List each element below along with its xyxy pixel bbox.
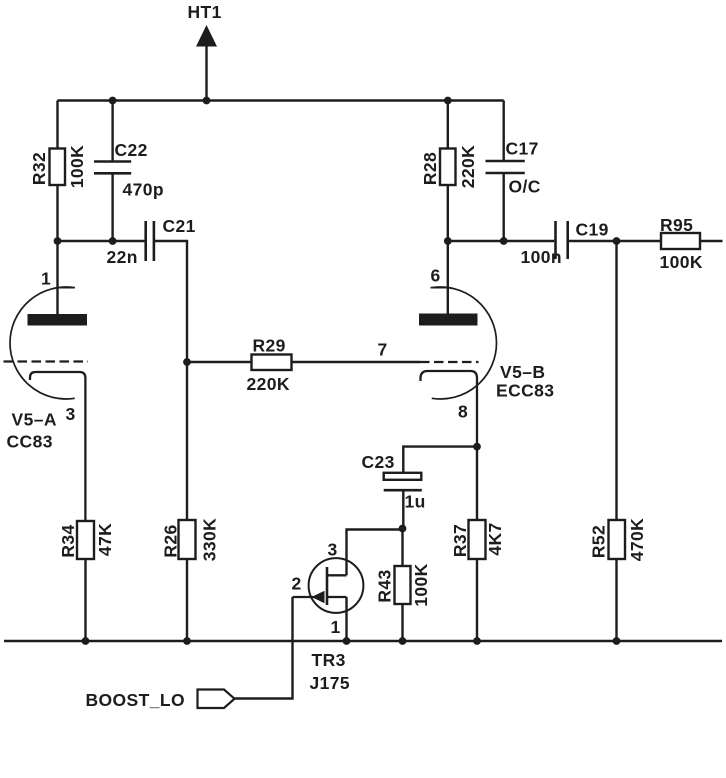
wire R32 top lead bbox=[56, 101, 58, 149]
wire R52 bottom lead bbox=[615, 559, 617, 641]
resistor R26 bbox=[179, 520, 196, 559]
svg-text:2: 2 bbox=[292, 574, 302, 594]
node bus / R34 bbox=[82, 637, 90, 645]
node HT bus / C22 bbox=[109, 97, 117, 105]
node V5-A anode / R32 bbox=[54, 237, 62, 245]
node bus / R52 bbox=[613, 637, 621, 645]
svg-text:3: 3 bbox=[66, 404, 76, 424]
svg-text:R28: R28 bbox=[420, 152, 440, 185]
power net HT1 bbox=[196, 25, 217, 101]
svg-text:R43: R43 bbox=[375, 569, 395, 602]
triode V5-B envelope bbox=[432, 287, 497, 399]
svg-text:R52: R52 bbox=[589, 525, 609, 558]
svg-text:R37: R37 bbox=[450, 524, 470, 557]
node V5-B cathode / C23 R37 bbox=[473, 443, 481, 451]
wire C17 top lead bbox=[503, 101, 505, 162]
resistor R29 bbox=[252, 355, 292, 371]
wire R37 bottom lead bbox=[476, 559, 478, 641]
wire cathode node to C23 bbox=[403, 447, 477, 473]
svg-text:470K: 470K bbox=[627, 518, 647, 561]
wire R29 to V5-B grid bbox=[292, 361, 421, 363]
svg-text:100K: 100K bbox=[411, 563, 431, 606]
wire R52 top lead bbox=[615, 241, 617, 520]
wire top HT bus bbox=[58, 99, 504, 101]
resistor R43 bbox=[395, 566, 411, 604]
svg-text:O/C: O/C bbox=[509, 177, 541, 197]
svg-text:1: 1 bbox=[331, 617, 341, 637]
node bus / R43 bbox=[399, 637, 407, 645]
wire R43 bottom lead bbox=[401, 604, 403, 641]
node V5-B anode / R28 bbox=[444, 237, 452, 245]
wire grid node to R29 bbox=[187, 361, 252, 363]
triode V5-A cathode bbox=[30, 372, 85, 521]
wire R43 top lead bbox=[401, 529, 403, 567]
transistor TR3 (JFET J175) bbox=[293, 558, 364, 613]
resistor R37 bbox=[469, 520, 486, 559]
svg-text:22n: 22n bbox=[107, 247, 138, 267]
wire R37 top lead bbox=[476, 447, 478, 520]
capacitor C21 bbox=[146, 221, 154, 261]
wire C23 bottom lead bbox=[402, 490, 404, 528]
triode V5-B plate bbox=[419, 314, 478, 326]
resistor R52 bbox=[609, 520, 626, 559]
wire R95 right lead bbox=[700, 240, 723, 242]
wire TR3 drain to C23 node bbox=[347, 530, 403, 576]
triode V5-A grid (dashed) bbox=[4, 360, 89, 362]
capacitor C22 bbox=[94, 162, 131, 174]
node bus / R26 bbox=[183, 637, 191, 645]
svg-text:220K: 220K bbox=[458, 145, 478, 188]
wire R32 bottom lead bbox=[56, 185, 58, 241]
svg-text:C19: C19 bbox=[576, 220, 609, 240]
resistor R32 bbox=[50, 149, 66, 186]
wire TR3 source to bus bbox=[345, 597, 347, 641]
svg-text:47K: 47K bbox=[95, 523, 115, 556]
triode V5-B grid (dashed) bbox=[420, 361, 479, 363]
svg-text:100K: 100K bbox=[67, 145, 87, 188]
svg-text:330K: 330K bbox=[200, 518, 220, 561]
svg-text:V5–B: V5–B bbox=[500, 362, 545, 382]
wire R26 bottom lead bbox=[186, 559, 188, 641]
svg-text:R95: R95 bbox=[660, 215, 693, 235]
svg-text:BOOST_LO: BOOST_LO bbox=[86, 690, 185, 710]
svg-text:3: 3 bbox=[328, 540, 338, 560]
svg-text:1: 1 bbox=[41, 269, 51, 289]
svg-text:R32: R32 bbox=[29, 152, 49, 185]
svg-text:ECC83: ECC83 bbox=[496, 381, 554, 401]
node V5-A anode / C22 bbox=[109, 237, 117, 245]
svg-text:J175: J175 bbox=[310, 673, 351, 693]
wire bottom ground bus bbox=[4, 640, 722, 643]
svg-text:100K: 100K bbox=[660, 252, 703, 272]
triode V5-A envelope bbox=[10, 287, 75, 399]
svg-text:6: 6 bbox=[431, 266, 441, 286]
triode V5-A plate bbox=[28, 314, 88, 326]
node V5-B anode / C17 bbox=[500, 237, 508, 245]
svg-text:HT1: HT1 bbox=[188, 2, 222, 22]
svg-text:C21: C21 bbox=[163, 216, 196, 236]
svg-text:C23: C23 bbox=[362, 452, 395, 472]
wire C21 to grid column bbox=[154, 241, 187, 520]
svg-text:100n: 100n bbox=[521, 247, 563, 267]
resistor R95 bbox=[661, 233, 700, 249]
wire C22 bottom lead bbox=[111, 173, 113, 241]
svg-text:1u: 1u bbox=[405, 492, 426, 512]
capacitor C19 bbox=[556, 221, 568, 259]
svg-text:C22: C22 bbox=[115, 140, 148, 160]
svg-text:R26: R26 bbox=[161, 524, 181, 557]
svg-text:7: 7 bbox=[378, 340, 388, 360]
capacitor C23 (top plate) bbox=[384, 473, 422, 480]
port BOOST_LO bbox=[198, 690, 235, 709]
wire R34 bottom lead bbox=[84, 559, 86, 641]
svg-text:470p: 470p bbox=[123, 180, 165, 200]
wire C19 to output node bbox=[568, 240, 661, 242]
resistor R28 bbox=[440, 149, 456, 186]
node HT bus / HT1 bbox=[203, 97, 211, 105]
svg-text:V5–A: V5–A bbox=[12, 410, 57, 430]
node V5-B grid / R26 bbox=[183, 358, 191, 366]
svg-text:220K: 220K bbox=[247, 374, 290, 394]
node HT bus / R28 bbox=[444, 97, 452, 105]
svg-text:CC83: CC83 bbox=[7, 432, 53, 452]
pin 1 tick (V5-A) bbox=[58, 287, 75, 289]
node bus / TR3 source bbox=[343, 637, 351, 645]
wire TR3 gate net bbox=[235, 597, 293, 699]
node bus / R37 bbox=[473, 637, 481, 645]
wire R28 bottom lead bbox=[447, 185, 449, 241]
svg-text:4K7: 4K7 bbox=[485, 522, 505, 555]
svg-text:R29: R29 bbox=[253, 336, 286, 356]
wire left anode rail bbox=[58, 240, 145, 242]
pin 6 tick (V5-B) bbox=[431, 287, 448, 289]
wire right anode rail bbox=[448, 240, 555, 242]
wire V5-B anode lead bbox=[447, 241, 449, 314]
capacitor C17 bbox=[486, 161, 525, 173]
wire C22 top lead bbox=[111, 101, 113, 162]
resistor R34 bbox=[77, 521, 94, 559]
svg-text:TR3: TR3 bbox=[312, 650, 346, 670]
capacitor C23 (bottom plate) bbox=[384, 489, 422, 492]
svg-text:R34: R34 bbox=[58, 524, 78, 557]
triode V5-B cathode bbox=[421, 371, 478, 447]
svg-text:C17: C17 bbox=[506, 139, 539, 159]
node output / R95 R52 bbox=[613, 237, 621, 245]
wire R28 top lead bbox=[447, 101, 449, 149]
node C23 / R43 / TR3 drain bbox=[399, 525, 407, 533]
wire C17 bottom lead bbox=[503, 173, 505, 241]
svg-text:8: 8 bbox=[458, 402, 468, 422]
wire V5-A anode lead bbox=[56, 241, 58, 314]
